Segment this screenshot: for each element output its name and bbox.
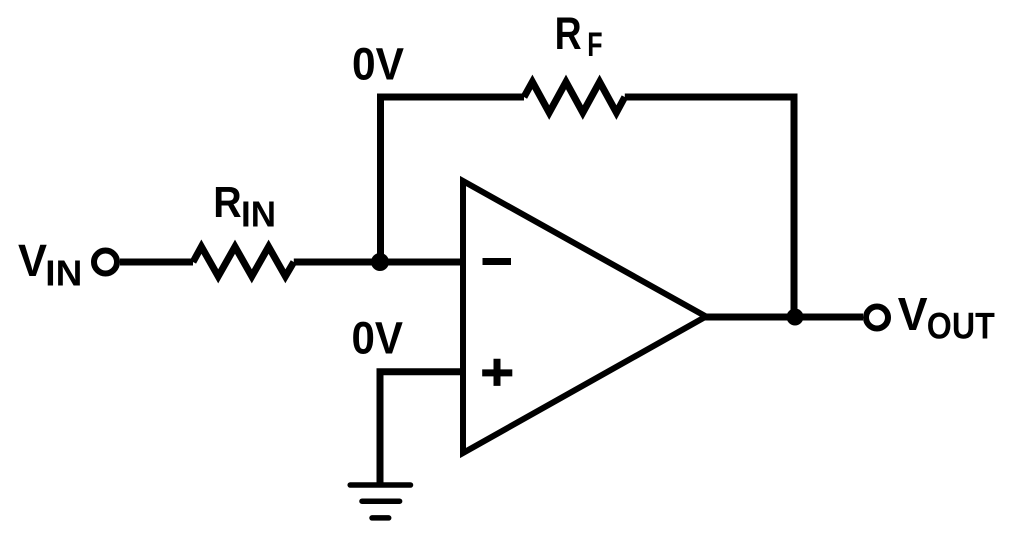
wire from RIN to op-amp inverting input <box>294 259 464 266</box>
svg-text:0V: 0V <box>352 313 404 364</box>
node B: output junction <box>787 309 804 326</box>
wire input lead from VIN terminal to RIN <box>120 259 193 266</box>
resistor RF <box>524 82 625 113</box>
op-amp U1 <box>463 181 706 453</box>
label VIN <box>18 235 82 294</box>
svg-text:F: F <box>587 26 602 64</box>
output terminal VOUT (open circle) <box>866 307 888 329</box>
svg-text:V: V <box>898 288 928 340</box>
svg-text:IN: IN <box>241 193 276 234</box>
wire top rail right of RF and right drop to output node <box>625 97 794 317</box>
svg-text:0V: 0V <box>352 39 404 90</box>
wire output lead from op-amp apex to VOUT terminal <box>705 314 863 321</box>
svg-text:R: R <box>213 178 241 227</box>
svg-text:R: R <box>555 8 582 59</box>
label RF <box>555 8 603 64</box>
node A: inverting input junction <box>371 253 389 271</box>
label VOUT <box>898 288 995 346</box>
svg-text:OUT: OUT <box>927 305 995 346</box>
ground <box>350 485 410 518</box>
label RIN <box>213 178 276 234</box>
svg-text:IN: IN <box>45 253 82 294</box>
input terminal VIN (open circle) <box>94 251 117 274</box>
svg-text:V: V <box>18 235 47 286</box>
op-amp non-inverting input marker (plus) <box>482 359 512 386</box>
wire feedback riser and top rail left of RF <box>381 97 525 262</box>
wire non-inverting input lead <box>380 372 464 485</box>
resistor RIN <box>193 247 294 277</box>
op-amp inverting input marker (minus) <box>483 258 512 265</box>
